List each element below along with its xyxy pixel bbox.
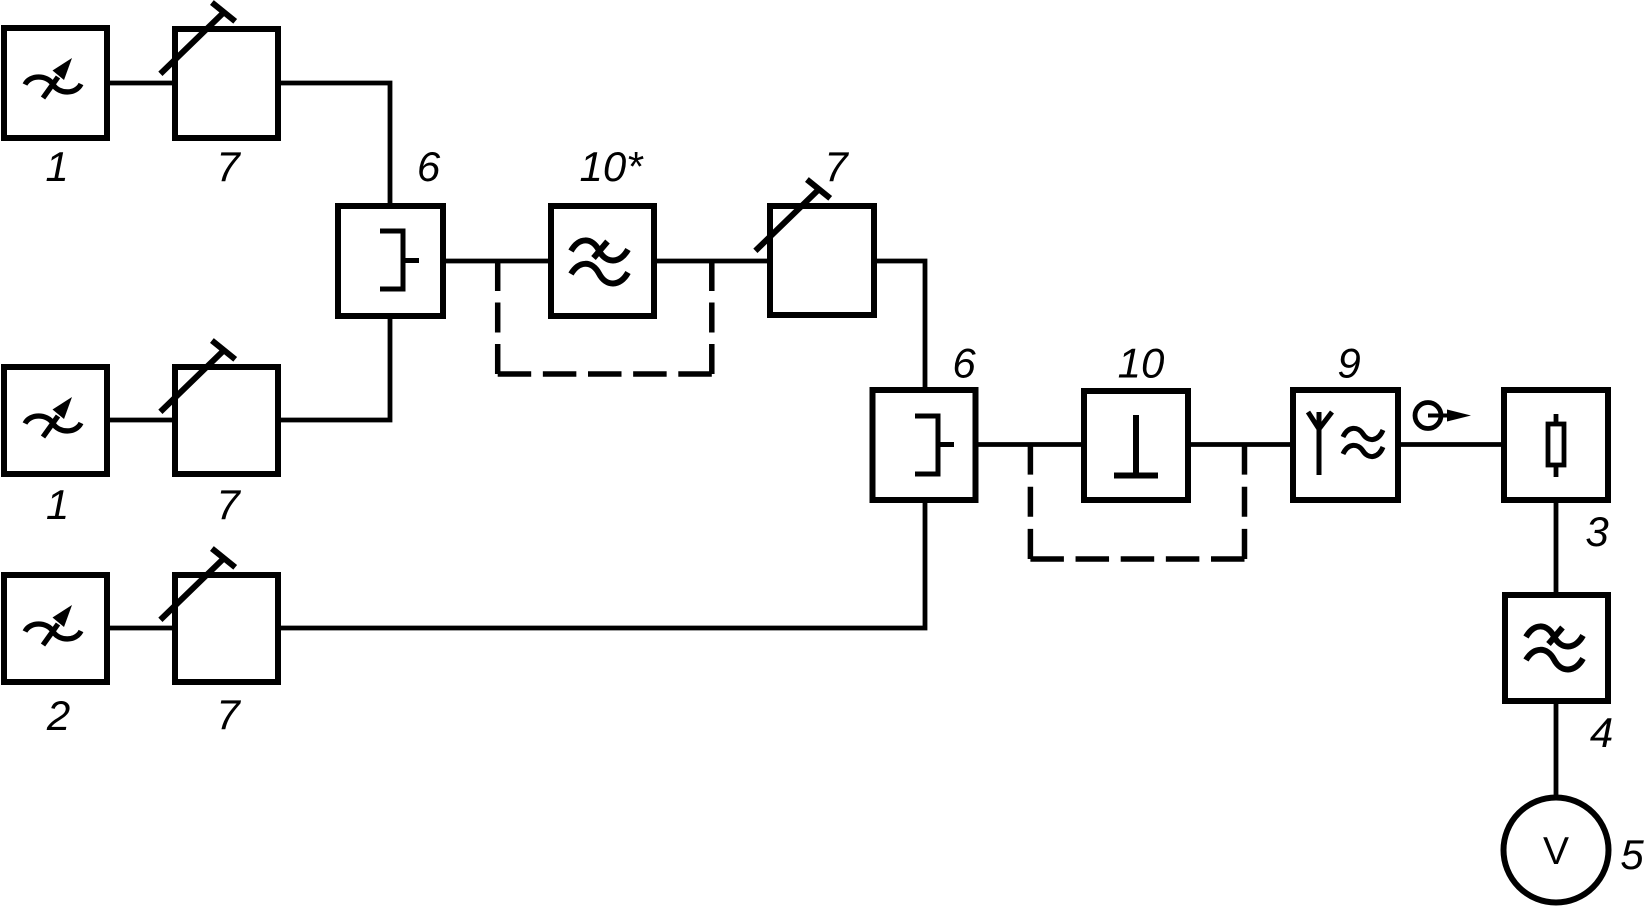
wire P9 to detector B3	[1398, 442, 1504, 447]
attenuator A4 variability arrow	[755, 180, 830, 251]
dashed optional frame around termination Z2	[1030, 445, 1244, 560]
attenuator A2 variability arrow	[160, 341, 235, 412]
svg-text:6: 6	[952, 340, 976, 387]
wire G2 to A2	[107, 418, 175, 423]
attenuator A1 box 7 (top row)	[175, 29, 278, 138]
wire B4 to voltmeter P5	[1554, 701, 1559, 797]
svg-text:3: 3	[1585, 508, 1608, 555]
combiner U1 box 6	[338, 206, 443, 316]
svg-text:7: 7	[216, 691, 241, 738]
generator G2 box 1 (middle row)	[4, 367, 107, 474]
generator G1 sine symbol	[25, 77, 81, 92]
filter Z1 box 10*	[551, 206, 654, 316]
svg-text:9: 9	[1337, 340, 1360, 387]
attenuator A2 box 7 (middle row)	[175, 367, 278, 474]
svg-text:1: 1	[45, 143, 68, 190]
wire Z1 to A4	[654, 259, 770, 264]
wire B3 to filter B4	[1554, 500, 1559, 595]
generator G2 sine symbol	[25, 416, 81, 431]
filter B4 wave symbol crossed	[1526, 626, 1583, 669]
svg-text:7: 7	[216, 143, 241, 190]
attenuator A3 variability arrow	[160, 549, 235, 620]
wire Z2 to receiver P9	[1188, 442, 1293, 447]
wire G1 to A1	[107, 81, 175, 86]
receiver P9 antenna symbol	[1308, 412, 1332, 475]
generator G3 sine symbol	[25, 624, 81, 639]
generator G1 arrow	[43, 58, 72, 98]
attenuator A4 box 7 (chain)	[770, 206, 874, 315]
wire U1 to filter Z1	[443, 259, 551, 264]
generator G3 box 2 (bottom row)	[4, 575, 107, 682]
receiver P9 box 9	[1293, 390, 1398, 500]
termination Z2 box 10	[1084, 391, 1188, 500]
dashed optional frame around filter Z1	[498, 261, 712, 374]
combiner U1 bracket symbol	[380, 231, 419, 289]
wire A1 to combiner U1 (right then down)	[278, 83, 390, 206]
detector B3 crystal symbol	[1548, 414, 1564, 477]
wire A3 to combiner U2 (long, right then up)	[278, 500, 925, 628]
svg-text:4: 4	[1590, 709, 1613, 756]
generator G2 arrow	[43, 397, 72, 437]
svg-text:5: 5	[1620, 831, 1644, 878]
wire A2 to combiner U1 (right then up)	[278, 316, 390, 420]
filter Z1 wave symbol crossed	[571, 240, 628, 283]
svg-text:1: 1	[46, 481, 69, 528]
termination Z2 ground-bar symbol	[1114, 415, 1158, 476]
attenuator A1 variability arrow	[160, 3, 235, 74]
svg-text:10*: 10*	[579, 143, 644, 190]
detector B3 box 3	[1504, 390, 1608, 500]
attenuator A3 box 7 (bottom row)	[175, 575, 278, 682]
generator G1 box 1 (top row)	[4, 28, 107, 138]
combiner U2 bracket symbol	[915, 416, 954, 474]
wire A4 to combiner U2 (right then down)	[874, 261, 925, 391]
filter B4 box 4	[1505, 595, 1608, 701]
svg-text:6: 6	[417, 143, 441, 190]
svg-text:10: 10	[1118, 340, 1165, 387]
combiner U2 box 6	[873, 390, 976, 500]
svg-text:V: V	[1543, 830, 1569, 873]
wire U2 to termination Z2	[974, 442, 1084, 447]
svg-text:2: 2	[46, 692, 70, 739]
generator G3 arrow	[43, 605, 72, 645]
receiver P9 wave symbol	[1343, 428, 1383, 456]
connector symbol (coaxial output)	[1415, 403, 1471, 429]
svg-text:7: 7	[824, 143, 849, 190]
voltmeter P5 circle 5	[1504, 798, 1609, 903]
svg-text:7: 7	[216, 481, 241, 528]
wire G3 to A3	[107, 626, 175, 631]
